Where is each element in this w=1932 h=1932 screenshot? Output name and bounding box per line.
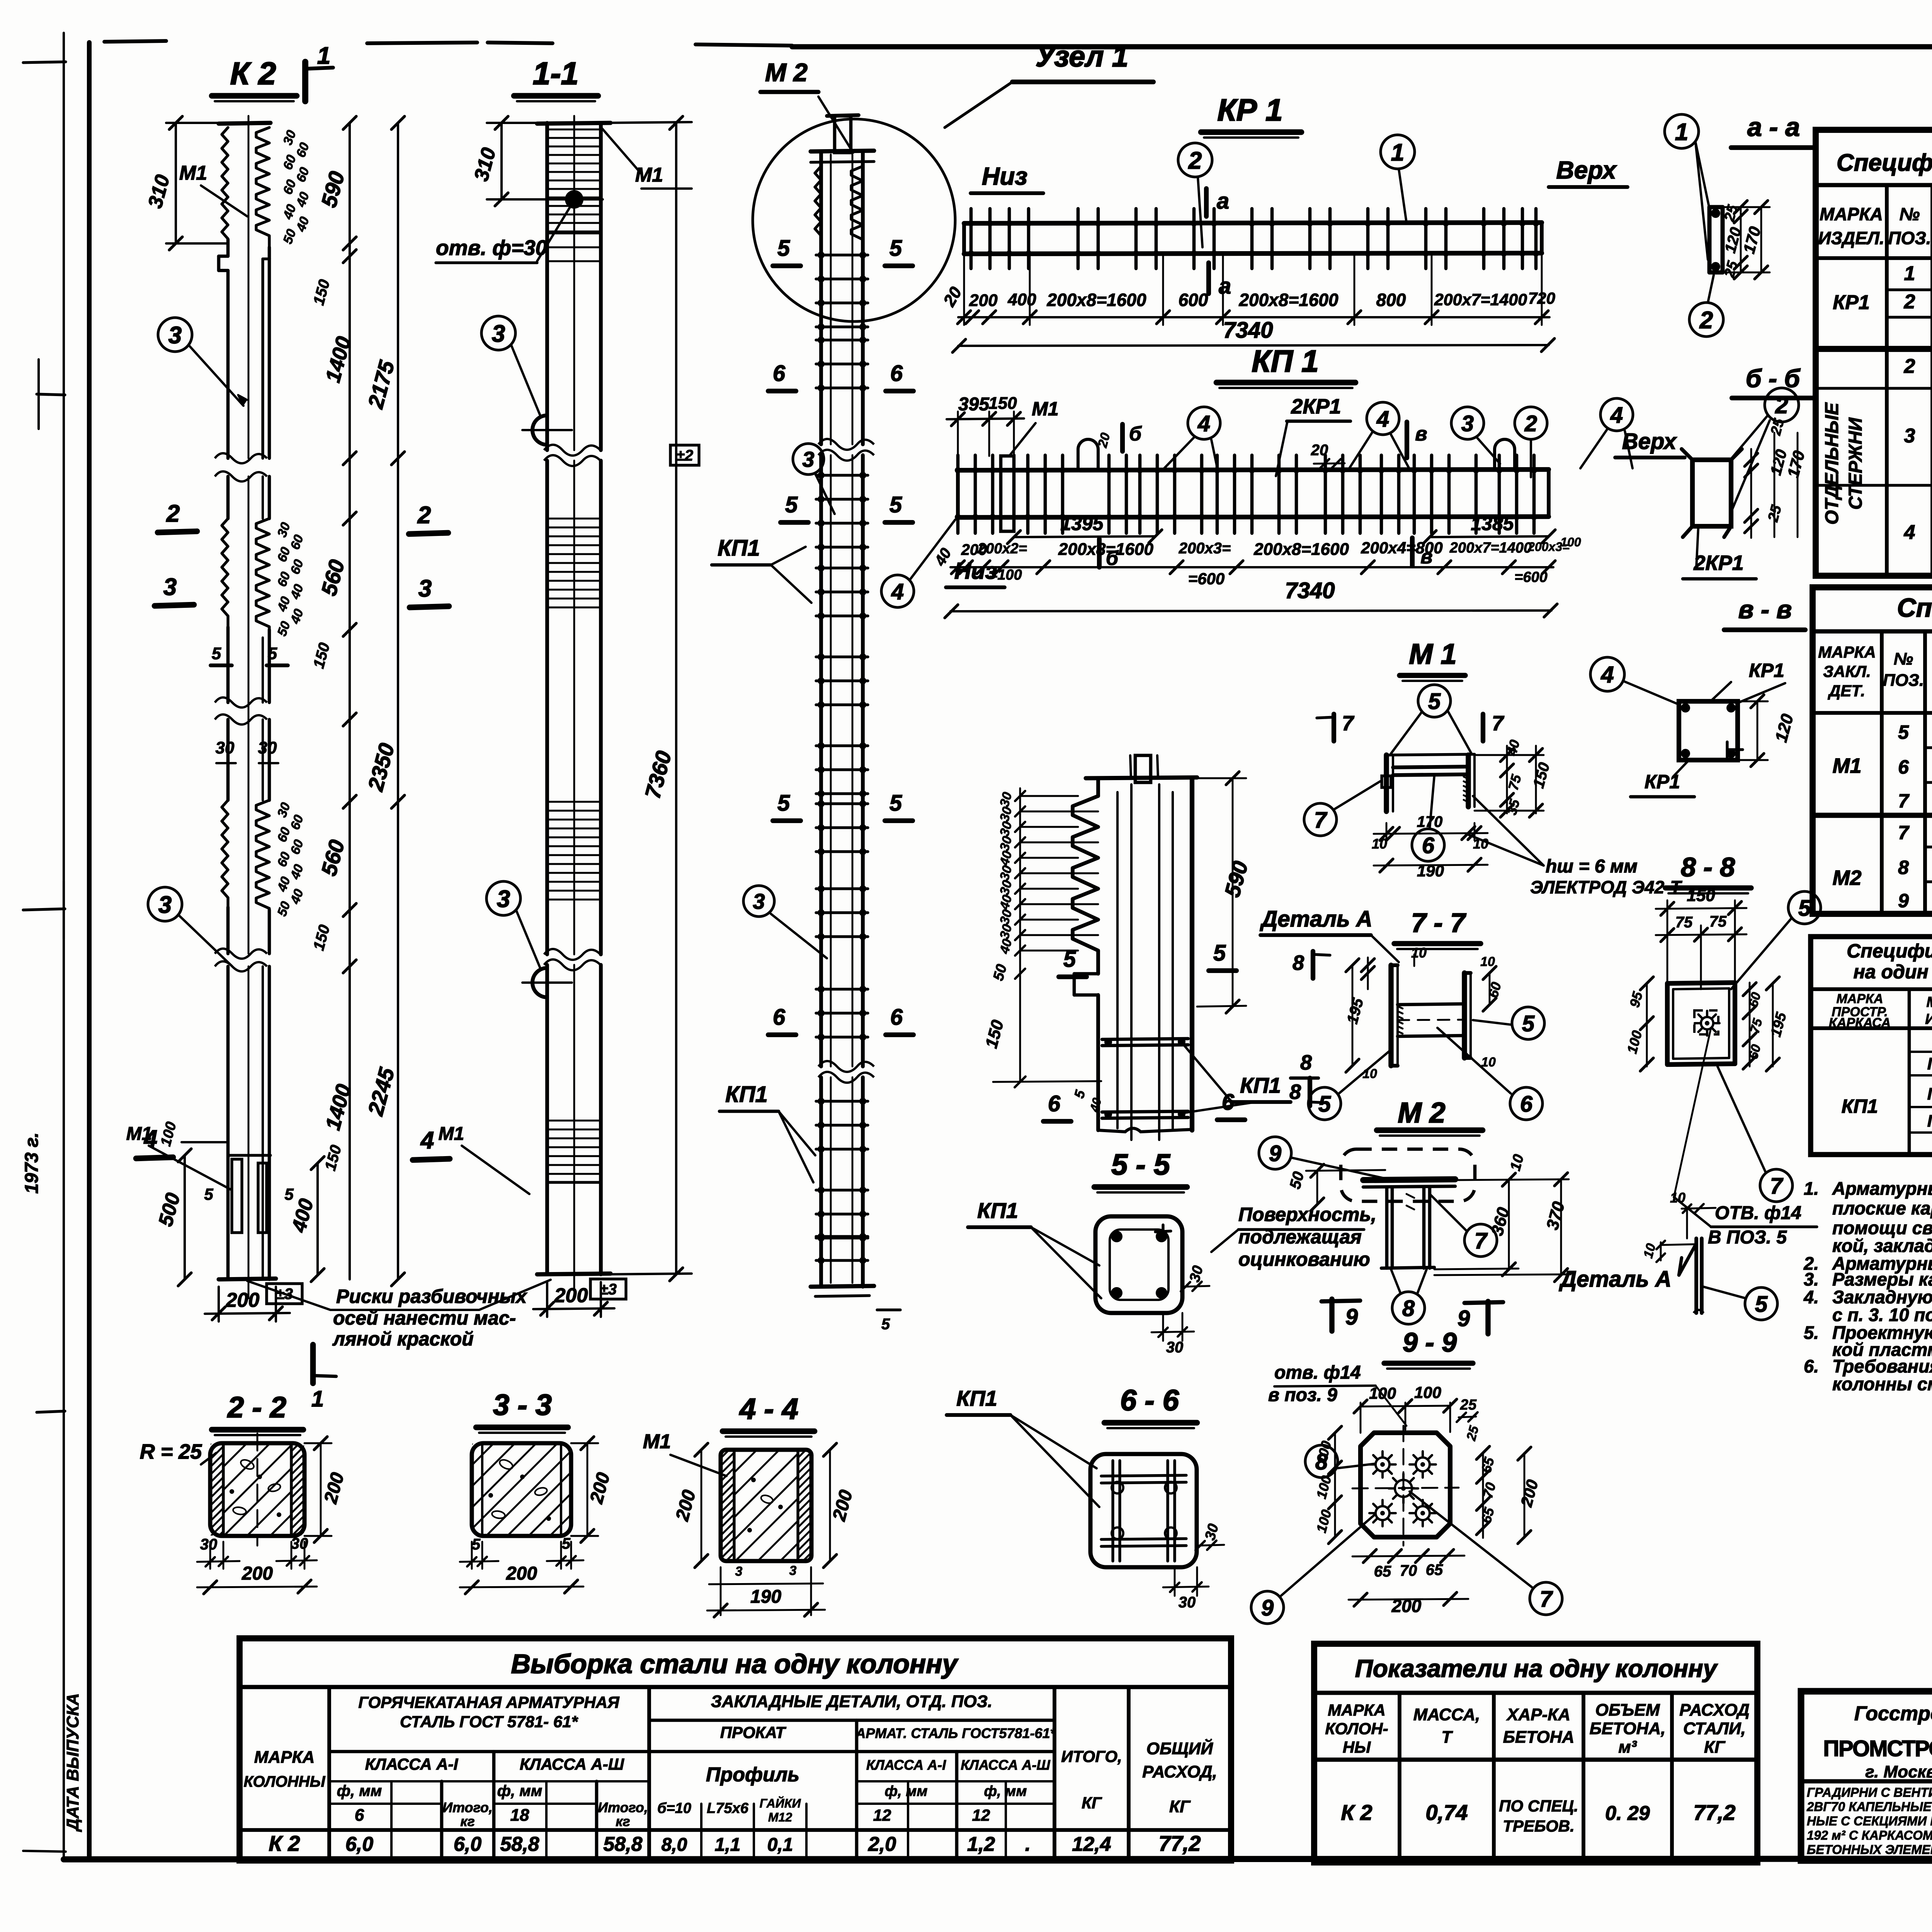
balloon 8 detail M2	[1392, 1292, 1425, 1324]
svg-text:5: 5	[204, 1185, 213, 1203]
balloon 6 detail 7-7	[1510, 1087, 1543, 1120]
svg-text:2КР1: 2КР1	[1291, 395, 1341, 418]
svg-text:7: 7	[1770, 1173, 1784, 1199]
section 5-5 body	[1095, 1216, 1182, 1313]
svg-text:2 - 2: 2 - 2	[227, 1391, 286, 1424]
section v-v body	[1679, 701, 1738, 760]
column KP1 cage body	[819, 151, 823, 444]
section mark 8 lower	[1308, 1078, 1312, 1106]
svg-text:9: 9	[1458, 1306, 1470, 1331]
column 1-1 break marks	[544, 445, 600, 456]
dimension 200 under 1-1	[546, 1282, 548, 1317]
svg-text:К 2: К 2	[1341, 1800, 1372, 1825]
section mark 5-5 at cage top	[773, 264, 801, 268]
detail 9-9 centrelines	[1403, 1426, 1405, 1546]
svg-text:58,8: 58,8	[603, 1833, 642, 1855]
table bottom grid	[327, 1687, 331, 1861]
column 1-1 body outline	[545, 123, 549, 450]
svg-text:170: 170	[1417, 813, 1443, 830]
svg-text:8: 8	[1300, 1051, 1312, 1074]
column 1-1 hatch zone 1	[547, 129, 601, 131]
section mark 6-6 at cage upper	[768, 389, 796, 393]
svg-text:Поверхность,: Поверхность,	[1238, 1204, 1376, 1225]
svg-text:ИЗДЕЛ.: ИЗДЕЛ.	[1925, 1011, 1932, 1027]
svg-text:200х2=: 200х2=	[977, 541, 1027, 557]
detail 9-9 dims left	[1334, 1433, 1336, 1537]
section mark 7 left	[1332, 714, 1336, 741]
balloon 5 detail 7-7 right	[1512, 1007, 1544, 1039]
svg-text:10: 10	[1670, 1190, 1685, 1206]
uzel 1 dim stack	[1019, 788, 1021, 1082]
sheet border frame	[63, 33, 65, 1861]
svg-text:200: 200	[506, 1563, 537, 1584]
svg-text:кг: кг	[460, 1813, 474, 1829]
svg-text:1395: 1395	[1060, 513, 1104, 534]
svg-text:4: 4	[1376, 406, 1389, 432]
section v-v dim 120	[1757, 701, 1759, 760]
svg-text:a: a	[1219, 274, 1231, 299]
svg-text:5: 5	[889, 791, 902, 816]
svg-text:6.: 6.	[1804, 1356, 1819, 1376]
svg-text:ИТОГО,: ИТОГО,	[1061, 1747, 1122, 1765]
tick 5-5 small left	[211, 663, 232, 667]
svg-text:4: 4	[1197, 411, 1210, 436]
svg-text:0,74: 0,74	[1426, 1800, 1468, 1825]
section mark 5-5 cage mid2	[773, 818, 801, 823]
svg-text:3: 3	[1461, 411, 1474, 436]
svg-text:200: 200	[241, 1563, 273, 1584]
cage bottom end	[811, 1286, 874, 1287]
svg-text:6: 6	[890, 1005, 903, 1030]
svg-text:200х8=1600: 200х8=1600	[1046, 290, 1146, 310]
svg-text:200: 200	[969, 291, 998, 310]
svg-text:НЫ: НЫ	[1343, 1738, 1371, 1756]
svg-text:4: 4	[891, 579, 904, 604]
svg-text:Госстрой СССР: Госстрой СССР	[1854, 1702, 1932, 1725]
svg-text:ПРОМСТРОЙПРОЕКТ: ПРОМСТРОЙПРОЕКТ	[1823, 1736, 1932, 1761]
section 6-6 cage bars	[1101, 1475, 1186, 1476]
section mark 4-4 left	[136, 1157, 173, 1158]
svg-text:Арматурные изделия изготовлять: Арматурные изделия изготовлять в соответ…	[1832, 1178, 1932, 1199]
svg-text:9: 9	[1269, 1141, 1281, 1166]
svg-text:30: 30	[291, 1535, 308, 1552]
svg-text:7: 7	[1342, 712, 1355, 735]
svg-text:КГ: КГ	[1704, 1738, 1726, 1757]
column K2 centreline	[248, 116, 250, 458]
left margin ticks	[23, 62, 66, 63]
svg-text:8: 8	[1293, 951, 1304, 975]
detail 9-9 dims right	[1482, 1453, 1484, 1538]
section mark 6-6 cage lower	[768, 1032, 796, 1037]
balloon 5 detail A	[1745, 1287, 1777, 1320]
svg-text:1973 г.: 1973 г.	[22, 1133, 42, 1194]
section 4-4 dims	[701, 1450, 702, 1561]
svg-text:±3: ±3	[600, 1281, 617, 1298]
balloon 7 detail M2	[1464, 1224, 1497, 1257]
svg-text:5: 5	[1798, 896, 1811, 921]
table indicators for one column	[1314, 1644, 1757, 1862]
uzel 1 section marks 5	[1059, 975, 1087, 979]
section 3-3 body	[472, 1443, 571, 1536]
svg-text:ЗАКЛ.: ЗАКЛ.	[1823, 662, 1871, 680]
dimension line 590-560 right of K2	[349, 123, 351, 1279]
svg-text:200х7=1400: 200х7=1400	[1449, 540, 1532, 556]
svg-text:Деталь А: Деталь А	[1259, 906, 1372, 932]
cage break marks	[818, 439, 874, 450]
svg-text:М1: М1	[179, 162, 207, 184]
svg-text:КЛАССА А-I: КЛАССА А-I	[866, 1757, 946, 1773]
svg-text:6,0: 6,0	[345, 1833, 373, 1855]
detail M1 body	[1384, 755, 1389, 811]
section 2-2 body	[210, 1443, 304, 1536]
title block frame	[1801, 1691, 1932, 1861]
section mark a upper	[1204, 189, 1209, 216]
section mark 7 right	[1481, 714, 1485, 741]
svg-text:30: 30	[1166, 1339, 1184, 1356]
uzel 1 detail body	[1190, 778, 1194, 1130]
svg-text:К 2: К 2	[269, 1831, 300, 1855]
svg-text:2КР1: 2КР1	[1693, 551, 1743, 575]
svg-text:4 - 4: 4 - 4	[739, 1393, 798, 1425]
svg-text:М1: М1	[439, 1124, 464, 1144]
svg-text:3: 3	[168, 322, 182, 349]
svg-text:М 2: М 2	[765, 58, 808, 87]
svg-text:КП 1: КП 1	[1252, 344, 1318, 378]
uzel 1 rebar lines	[1130, 784, 1133, 1140]
svg-text:плоские каркасы-точечной сварк: плоские каркасы-точечной сваркой, простр…	[1832, 1198, 1932, 1218]
KP1 total dimension 7340	[951, 611, 1551, 611]
balloon 2 KR1	[1178, 143, 1212, 177]
section 6-6 body	[1090, 1454, 1197, 1567]
svg-text:ПОЗ.4: ПОЗ.4	[1927, 1112, 1932, 1131]
svg-text:5: 5	[777, 236, 790, 261]
svg-text:8: 8	[1898, 857, 1909, 878]
svg-text:ПОЗ.3: ПОЗ.3	[1927, 1085, 1932, 1104]
svg-text:КЛАССА А-Ш: КЛАССА А-Ш	[961, 1757, 1050, 1773]
uzel 1 dim 590	[1232, 778, 1234, 1007]
svg-text:г. Москва 1973 г.: г. Москва 1973 г.	[1865, 1762, 1932, 1781]
column K2 bottom end	[219, 1279, 276, 1279]
svg-text:1385: 1385	[1471, 513, 1514, 534]
svg-text:Профиль: Профиль	[706, 1764, 799, 1786]
svg-text:в: в	[1415, 423, 1427, 445]
svg-text:КАРКАСА: КАРКАСА	[1829, 1015, 1891, 1030]
balloon 8 detail 9-9	[1305, 1445, 1338, 1478]
svg-text:5: 5	[1318, 1092, 1331, 1117]
svg-text:ф, мм: ф, мм	[984, 1783, 1027, 1799]
svg-text:ИЗДЕЛ.: ИЗДЕЛ.	[1818, 228, 1884, 248]
svg-text:ОТДЕЛЬНЫЕ: ОТДЕЛЬНЫЕ	[1822, 402, 1842, 525]
svg-text:200х7=1400: 200х7=1400	[1434, 291, 1527, 309]
section marks 9-9	[1329, 1299, 1334, 1331]
section b-b dims	[1750, 449, 1752, 538]
svg-text:Риски разбивочных: Риски разбивочных	[336, 1286, 527, 1307]
tolerance box K2	[267, 1284, 302, 1304]
svg-text:3: 3	[789, 1563, 797, 1578]
svg-text:190: 190	[1417, 862, 1444, 880]
svg-text:4: 4	[1610, 403, 1623, 428]
detail M1 nut symbol	[1382, 776, 1391, 787]
svg-text:5: 5	[785, 492, 798, 517]
svg-text:РАСХОД: РАСХОД	[1679, 1701, 1750, 1719]
svg-text:в - в: в - в	[1738, 595, 1792, 624]
svg-text:М 1: М 1	[1409, 638, 1456, 670]
svg-text:М1: М1	[1032, 398, 1058, 420]
svg-text:2: 2	[1904, 291, 1915, 313]
svg-text:400: 400	[1007, 290, 1036, 309]
column K2 left edge	[222, 128, 228, 240]
svg-text:1: 1	[317, 43, 330, 69]
svg-text:КГ: КГ	[1169, 1797, 1191, 1816]
column K2 break marks	[215, 453, 267, 463]
svg-text:НЫЕ С СЕКЦИЯМИ ПЛОЩАДЬЮ: НЫЕ С СЕКЦИЯМИ ПЛОЩАДЬЮ	[1807, 1814, 1932, 1828]
uzel 1 top anchor	[1135, 755, 1151, 782]
svg-text:б: б	[1129, 423, 1142, 445]
svg-text:2: 2	[166, 500, 180, 527]
svg-text:30: 30	[216, 738, 235, 757]
section mark v lower	[1410, 538, 1415, 566]
svg-text:20: 20	[1311, 442, 1328, 459]
svg-text:колонны см. в пояснительной за: колонны см. в пояснительной записке.	[1832, 1374, 1932, 1394]
svg-text:6: 6	[773, 361, 786, 386]
svg-text:5: 5	[1213, 940, 1226, 966]
svg-text:9: 9	[1261, 1595, 1274, 1621]
hole otv f30 dot	[565, 190, 583, 209]
svg-text:3: 3	[802, 447, 814, 471]
svg-text:58,8: 58,8	[500, 1833, 539, 1855]
svg-text:на один пространственный ка: на один пространственный каркас	[1854, 961, 1932, 983]
svg-text:СТАЛИ,: СТАЛИ,	[1683, 1719, 1746, 1738]
svg-text:2: 2	[1699, 307, 1713, 333]
svg-text:5: 5	[1428, 689, 1441, 714]
svg-text:№: №	[1894, 650, 1913, 668]
detail 7-7 body	[1388, 965, 1393, 1066]
svg-text:12: 12	[873, 1806, 891, 1824]
column 1-1 hatch zone 2	[547, 518, 601, 520]
svg-text:Деталь А: Деталь А	[1558, 1267, 1671, 1292]
svg-text:6: 6	[1520, 1092, 1533, 1117]
svg-text:2: 2	[417, 502, 431, 529]
svg-text:оцинкованию: оцинкованию	[1238, 1248, 1370, 1270]
svg-text:1: 1	[1904, 262, 1915, 285]
svg-text:в поз. 9: в поз. 9	[1268, 1385, 1337, 1405]
detail 8-8 body	[1667, 983, 1735, 983]
balloon 3 column 1-1 upper	[481, 316, 515, 350]
svg-text:КП1: КП1	[1842, 1095, 1878, 1117]
svg-text:М1: М1	[1832, 754, 1861, 777]
balloon 3 column 1-1 lower	[486, 881, 520, 915]
svg-text:ПОЗ.: ПОЗ.	[1888, 228, 1931, 248]
detail M1 dims below	[1386, 823, 1388, 840]
svg-text:7: 7	[1492, 712, 1505, 735]
svg-text:8: 8	[1315, 1449, 1328, 1475]
svg-text:100: 100	[1560, 535, 1581, 549]
svg-text:БЕТОННЫХ ЭЛЕМЕНТОВ: БЕТОННЫХ ЭЛЕМЕНТОВ	[1807, 1842, 1932, 1857]
cage stirrup ticks	[816, 253, 868, 256]
dimension 310 of 1-1	[500, 123, 503, 199]
svg-text:0,1: 0,1	[767, 1835, 793, 1855]
svg-text:КЛАССА А-Ш: КЛАССА А-Ш	[520, 1755, 624, 1773]
svg-text:ОТВ. ф14: ОТВ. ф14	[1715, 1203, 1801, 1223]
balloon 3 left column upper	[158, 318, 192, 352]
svg-text:5: 5	[1522, 1011, 1535, 1036]
svg-text:1: 1	[1391, 139, 1404, 166]
KR1 total dimension 7340	[958, 345, 1549, 346]
balloon 5 detail M1	[1418, 685, 1451, 717]
balloon 5 detail 7-7 left	[1308, 1087, 1341, 1120]
uzel 1 ties	[1102, 1039, 1188, 1039]
balloon 4 KP1 left	[881, 575, 914, 607]
svg-text:4: 4	[420, 1127, 434, 1154]
svg-text:3 - 3: 3 - 3	[493, 1389, 552, 1422]
section mark 1 top	[302, 62, 308, 101]
svg-text:КОЛОН-: КОЛОН-	[1325, 1719, 1388, 1738]
frame KR1 stirrup ticks	[969, 209, 973, 269]
KR1 dimension chain	[958, 316, 1549, 318]
svg-text:ГРАДИРНИ С ВЕНТИЛЯТОРАМИ: ГРАДИРНИ С ВЕНТИЛЯТОРАМИ	[1807, 1785, 1932, 1799]
detail 8-8 dims above	[1667, 900, 1668, 989]
svg-text:КЛАССА А-I: КЛАССА А-I	[365, 1755, 459, 1773]
section mark a lower	[1206, 263, 1211, 294]
cage top teeth	[815, 166, 821, 247]
section mark v upper	[1405, 422, 1409, 458]
svg-text:±2: ±2	[676, 447, 693, 464]
small table frames per space cage	[1811, 937, 1932, 1155]
svg-text:ГАЙКИ: ГАЙКИ	[760, 1796, 801, 1810]
svg-text:5: 5	[881, 1316, 890, 1333]
svg-text:Верх: Верх	[1556, 156, 1617, 184]
balloon 3 left column lower	[148, 887, 182, 921]
svg-text:7: 7	[1898, 790, 1910, 812]
svg-text:30: 30	[258, 738, 277, 757]
detail 9-9 octagon plate	[1361, 1433, 1450, 1537]
svg-text:7: 7	[1898, 822, 1910, 844]
section 2-2 dims	[209, 1542, 211, 1569]
svg-text:9 - 9: 9 - 9	[1403, 1327, 1457, 1357]
KP1 top balloons	[1188, 407, 1220, 439]
svg-text:7340: 7340	[1223, 318, 1273, 343]
svg-text:б=10: б=10	[657, 1800, 691, 1816]
svg-text:М1: М1	[643, 1430, 671, 1453]
overall dimension 7360	[675, 123, 677, 1274]
svg-text:75: 75	[1675, 914, 1693, 931]
section mark 8 upper	[1311, 951, 1315, 978]
svg-text:4.: 4.	[1803, 1287, 1819, 1307]
svg-text:6: 6	[1898, 756, 1909, 778]
svg-text:2: 2	[1188, 147, 1202, 174]
svg-text:5: 5	[472, 1536, 481, 1553]
svg-text:7: 7	[1475, 1228, 1488, 1253]
svg-text:200: 200	[226, 1289, 260, 1311]
section mark 4-4 right	[413, 1159, 450, 1160]
svg-text:720: 720	[1528, 289, 1555, 307]
svg-text:Верх: Верх	[1622, 429, 1677, 454]
svg-text:7: 7	[1540, 1587, 1553, 1612]
svg-text:18: 18	[510, 1806, 529, 1825]
svg-text:КР1: КР1	[1749, 660, 1784, 681]
detail M2 side view	[1363, 1179, 1455, 1180]
table 1 specification and steel selection for one reinforcement product	[1816, 130, 1932, 576]
section 5-5 dims	[1182, 1286, 1209, 1287]
svg-text:ПРОКАТ: ПРОКАТ	[720, 1723, 787, 1742]
svg-text:Низ: Низ	[982, 162, 1027, 190]
svg-text:6: 6	[355, 1806, 364, 1825]
svg-text:3: 3	[158, 891, 172, 918]
svg-text:5: 5	[889, 492, 902, 517]
svg-text:ХАР-КА: ХАР-КА	[1506, 1705, 1570, 1724]
svg-text:АРМАТ. СТАЛЬ ГОСТ5781-61*: АРМАТ. СТАЛЬ ГОСТ5781-61*	[855, 1725, 1056, 1741]
balloon 1 section a-a	[1665, 114, 1699, 148]
svg-text:2: 2	[1775, 393, 1788, 418]
hook pos 3 upper	[532, 415, 547, 445]
balloon 7 detail 8-8	[1760, 1169, 1793, 1202]
svg-text:77,2: 77,2	[1159, 1831, 1201, 1855]
svg-text:190: 190	[750, 1587, 781, 1607]
KP1 dim 1395	[1014, 536, 1155, 537]
svg-text:КП1: КП1	[977, 1198, 1018, 1223]
svg-text:М2: М2	[1832, 866, 1861, 889]
svg-text:№: №	[1900, 204, 1920, 224]
detail 7-7 dims	[1367, 957, 1369, 989]
section b-b body	[1692, 460, 1731, 526]
section mark 3-3 left	[155, 605, 194, 606]
svg-text:10: 10	[1372, 836, 1387, 852]
cage bottom tick 5	[877, 1308, 900, 1311]
svg-text:ПО СПЕЦ.: ПО СПЕЦ.	[1499, 1797, 1578, 1815]
svg-text:12: 12	[972, 1806, 990, 1824]
svg-text:5: 5	[1755, 1292, 1768, 1317]
svg-text:6: 6	[773, 1005, 786, 1030]
svg-text:1.: 1.	[1804, 1178, 1819, 1199]
detail A body	[1694, 1238, 1698, 1313]
balloon 9 detail 9-9	[1251, 1591, 1284, 1624]
svg-text:77,2: 77,2	[1694, 1800, 1736, 1825]
tolerance box 1-1 bottom	[590, 1279, 626, 1299]
svg-text:РАСХОД,: РАСХОД,	[1142, 1762, 1217, 1781]
svg-text:ОБЩИЙ: ОБЩИЙ	[1146, 1738, 1214, 1758]
detail 9-9 dims bottom	[1352, 1556, 1464, 1556]
detail M2 dashed plate	[1341, 1149, 1475, 1201]
svg-text:200: 200	[554, 1284, 588, 1307]
svg-text:30: 30	[200, 1536, 218, 1553]
svg-text:=100: =100	[989, 567, 1022, 583]
detail 9-9 holes	[1376, 1458, 1389, 1471]
svg-text:9: 9	[1345, 1304, 1358, 1330]
svg-text:8: 8	[1289, 1080, 1301, 1104]
svg-text:600: 600	[1179, 290, 1208, 310]
svg-text:150: 150	[1687, 886, 1715, 905]
svg-text:5: 5	[889, 236, 902, 261]
svg-text:7340: 7340	[1285, 578, 1335, 603]
svg-text:6 - 6: 6 - 6	[1120, 1384, 1179, 1417]
svg-text:2: 2	[1524, 411, 1537, 436]
svg-text:КП1: КП1	[718, 536, 760, 561]
svg-text:Выборка стали на одну: Выборка стали на одну колонну	[511, 1649, 958, 1679]
svg-text:200х8=1600: 200х8=1600	[1058, 540, 1153, 559]
svg-text:ф, мм: ф, мм	[885, 1783, 928, 1799]
svg-text:200х3=: 200х3=	[1179, 540, 1231, 557]
svg-text:5: 5	[777, 791, 790, 816]
balloon 6 detail M1	[1412, 829, 1444, 861]
svg-text:30: 30	[1179, 1594, 1196, 1611]
section mark 3-3 right	[410, 606, 449, 607]
svg-text:Итого,: Итого,	[442, 1799, 493, 1815]
section 3-3 dims	[471, 1542, 473, 1569]
svg-text:2: 2	[1904, 355, 1915, 378]
svg-text:3: 3	[163, 574, 177, 600]
svg-text:3: 3	[492, 320, 505, 347]
svg-text:5: 5	[212, 644, 221, 663]
